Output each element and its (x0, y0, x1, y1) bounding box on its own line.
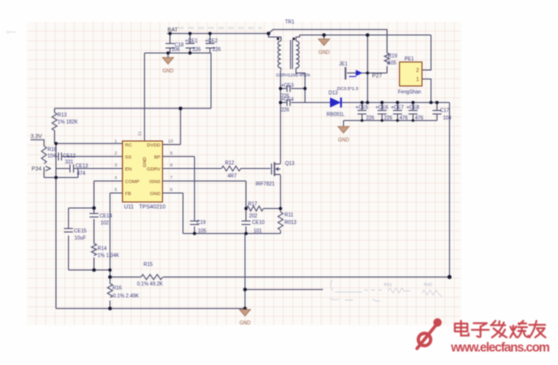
svg-text:P34: P34 (32, 167, 42, 173)
svg-text:RC: RC (125, 142, 132, 148)
svg-text:104: 104 (443, 116, 452, 122)
svg-text:R11: R11 (285, 213, 294, 219)
svg-text:4: 4 (114, 175, 117, 180)
svg-text:4R7: 4R7 (228, 174, 237, 180)
svg-text:+CE7: +CE7 (391, 105, 404, 111)
svg-text:+CE4: +CE4 (281, 97, 294, 103)
svg-text:10uF: 10uF (75, 236, 86, 242)
svg-text:11: 11 (137, 131, 142, 136)
svg-text:226: 226 (281, 108, 290, 114)
svg-text:101: 101 (254, 229, 263, 235)
svg-text:476: 476 (400, 116, 409, 122)
svg-text:+CE5: +CE5 (356, 105, 369, 111)
svg-text:1% 1.34K: 1% 1.34K (98, 253, 120, 259)
svg-text:+CE3: +CE3 (281, 83, 294, 89)
svg-text:R12: R12 (225, 161, 234, 167)
svg-text:IRF7821: IRF7821 (256, 182, 275, 188)
svg-text:R18: R18 (48, 147, 57, 153)
svg-text:1: 1 (416, 77, 419, 83)
svg-text:CE14: CE14 (100, 214, 113, 220)
svg-text:1% 182K: 1% 182K (58, 120, 79, 126)
svg-text:202: 202 (249, 214, 258, 220)
svg-text:GND: GND (239, 321, 251, 327)
svg-text:+CE8: +CE8 (407, 105, 420, 111)
svg-text:7: 7 (170, 175, 173, 180)
svg-text:TPS40210: TPS40210 (139, 205, 165, 211)
svg-text:FB: FB (125, 191, 131, 197)
svg-text:R013: R013 (285, 220, 297, 226)
svg-text:R40: R40 (424, 282, 433, 287)
svg-text:226: 226 (366, 116, 375, 122)
svg-text:PE1: PE1 (405, 57, 415, 63)
svg-text:3: 3 (114, 163, 117, 168)
svg-text:C19: C19 (197, 220, 206, 226)
svg-text:+CE6: +CE6 (376, 105, 389, 111)
svg-text:104: 104 (48, 154, 57, 160)
svg-text:U11: U11 (124, 205, 134, 211)
svg-text:0.1% 2.49K: 0.1% 2.49K (113, 294, 140, 300)
svg-text:R41: R41 (384, 282, 393, 287)
svg-text:ISNS: ISNS (149, 179, 160, 185)
svg-text:226: 226 (384, 116, 393, 122)
svg-text:331: 331 (65, 160, 74, 166)
svg-text:105: 105 (388, 61, 397, 67)
svg-text:DC3.5*1.3: DC3.5*1.3 (337, 86, 359, 91)
svg-text:CE10: CE10 (252, 220, 265, 226)
svg-text:226: 226 (213, 47, 222, 53)
svg-text:9: 9 (170, 151, 173, 156)
svg-text:8: 8 (170, 163, 173, 168)
svg-text:226: 226 (193, 47, 202, 53)
svg-text:EN: EN (125, 167, 132, 173)
svg-text:5: 5 (114, 187, 117, 192)
svg-text:476: 476 (415, 116, 424, 122)
svg-text:D13: D13 (329, 91, 338, 97)
svg-text:R16: R16 (113, 286, 122, 292)
svg-text:3.3V: 3.3V (31, 134, 43, 140)
svg-text:FengShan: FengShan (398, 90, 421, 96)
svg-text:+CE2: +CE2 (205, 39, 218, 45)
svg-text:102: 102 (101, 221, 110, 227)
svg-text:R19: R19 (388, 54, 397, 60)
svg-text:CE13: CE13 (76, 164, 89, 170)
svg-text:GND: GND (142, 156, 147, 167)
svg-text:BP: BP (154, 155, 160, 161)
svg-text:JE1: JE1 (339, 62, 348, 68)
svg-text:SS: SS (125, 155, 131, 161)
svg-text:106: 106 (172, 47, 181, 53)
svg-text:2: 2 (114, 151, 117, 156)
svg-text:0.1% 49.2K: 0.1% 49.2K (137, 282, 164, 288)
svg-text:GSRH124B-4R2N: GSRH124B-4R2N (276, 73, 310, 78)
svg-text:RB091L: RB091L (327, 112, 345, 118)
svg-text:DVDD: DVDD (147, 143, 161, 149)
svg-text:R13: R13 (58, 113, 67, 119)
svg-text:P27: P27 (372, 74, 382, 80)
svg-text:474: 474 (77, 171, 86, 177)
svg-text:R14: R14 (98, 246, 107, 252)
svg-text:www.elecfans.com: www.elecfans.com (450, 341, 550, 355)
svg-text:6: 6 (170, 187, 173, 192)
svg-text:+CE1: +CE1 (185, 39, 198, 45)
svg-text:BAT: BAT (168, 28, 179, 34)
svg-text:GND: GND (338, 138, 350, 144)
svg-text:TR1: TR1 (285, 20, 295, 26)
svg-text:CE15: CE15 (74, 229, 87, 235)
svg-text:GND: GND (162, 69, 174, 75)
svg-text:10: 10 (168, 139, 174, 144)
svg-text:COMP: COMP (125, 179, 139, 185)
svg-text:1: 1 (114, 139, 117, 144)
svg-text:GDRV: GDRV (147, 167, 162, 173)
svg-text:105: 105 (198, 229, 207, 235)
svg-text:GND: GND (318, 50, 330, 56)
svg-text:R17: R17 (248, 202, 257, 208)
svg-text:R15: R15 (144, 262, 153, 268)
svg-text:2: 2 (416, 68, 419, 74)
svg-text:C17: C17 (440, 108, 449, 114)
svg-text:GND: GND (150, 191, 161, 197)
svg-text:Q13: Q13 (285, 161, 295, 167)
